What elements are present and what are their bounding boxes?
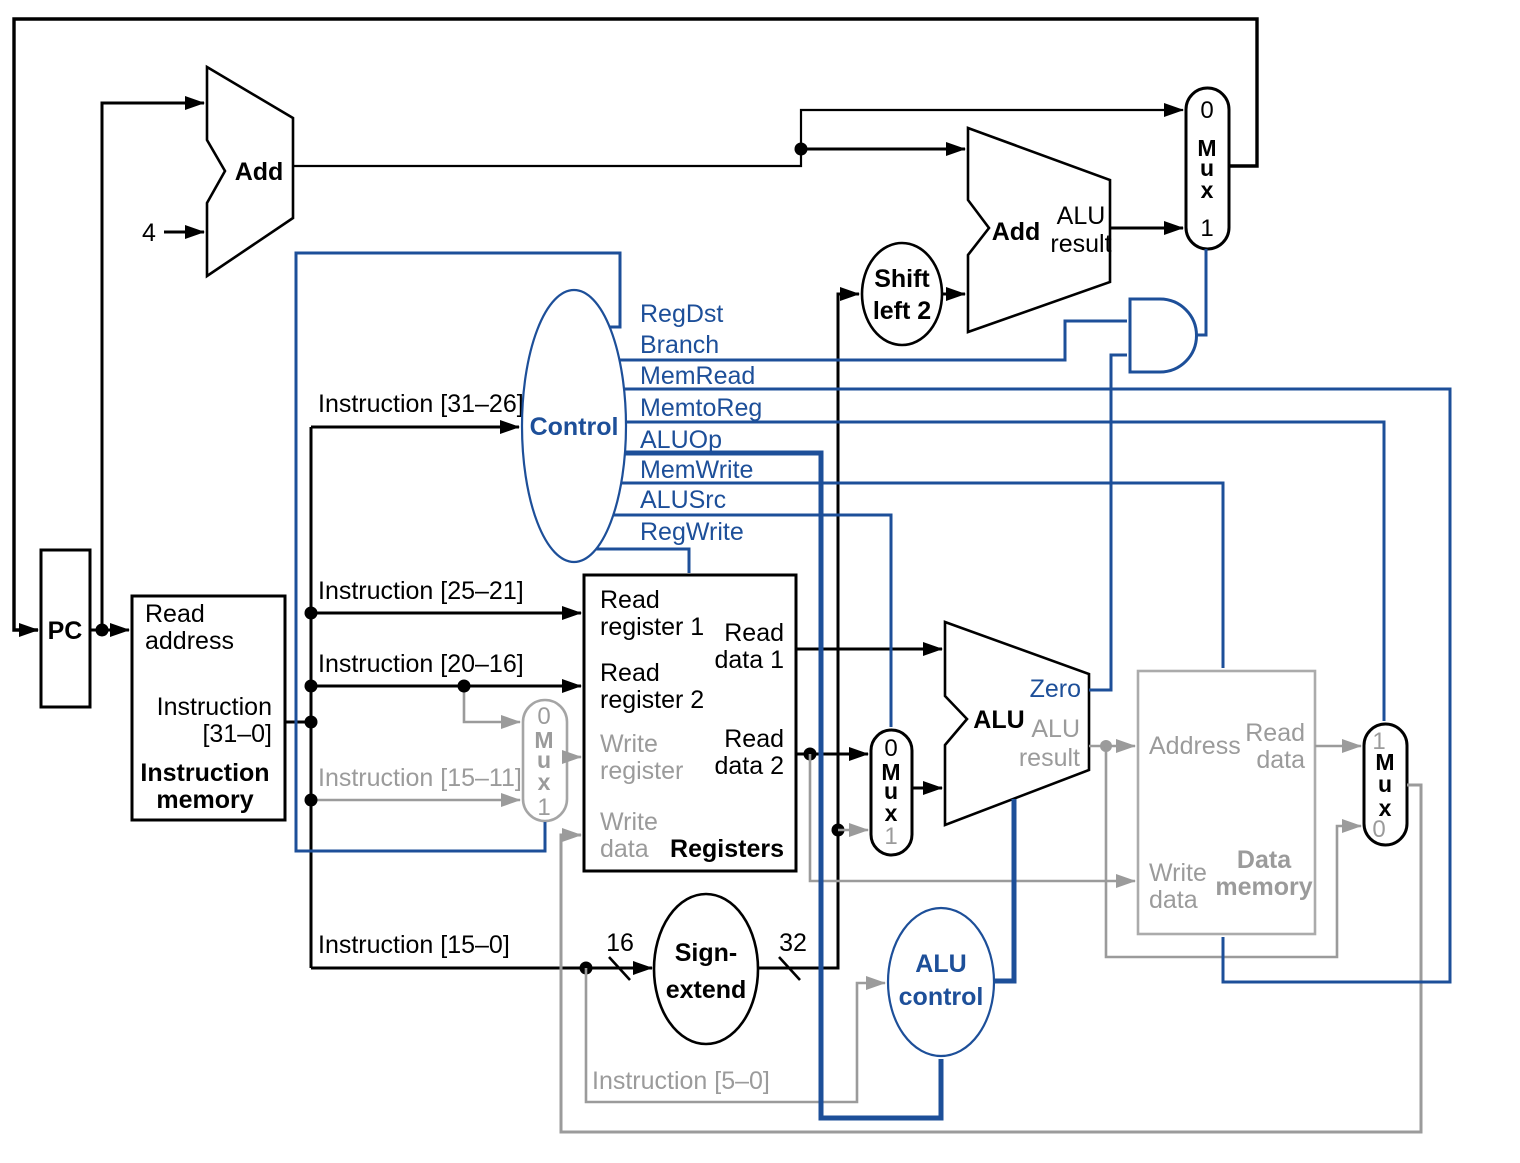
svg-text:address: address — [145, 627, 234, 655]
svg-text:ALUOp: ALUOp — [640, 426, 722, 454]
node junction Instruction [25-21] — [305, 607, 318, 620]
control unit — [522, 290, 626, 562]
svg-text:Data: Data — [1237, 846, 1292, 874]
node PC output junction — [96, 624, 109, 637]
label Branch — [640, 331, 719, 359]
wire Read data 2 to data memory Write data (inactive) — [810, 754, 1135, 881]
svg-text:control: control — [899, 983, 984, 1011]
svg-text:Sign-: Sign- — [675, 939, 738, 967]
wire Add output to branch circuitry — [293, 110, 1183, 166]
svg-text:Write: Write — [600, 730, 658, 758]
wire shift left 2 output to branch Add bottom input — [942, 293, 965, 296]
svg-text:result: result — [1050, 230, 1111, 258]
svg-text:1: 1 — [884, 823, 897, 850]
adder Add (PC+4) — [207, 67, 293, 276]
svg-text:0: 0 — [537, 703, 550, 730]
svg-text:Write: Write — [600, 808, 658, 836]
svg-text:Registers: Registers — [670, 835, 784, 863]
label MemWrite — [640, 456, 753, 484]
wire Instruction [20-16] to Read register 2 — [311, 685, 581, 688]
wire Read data 2 to ALUSrc mux input 0 — [796, 753, 868, 756]
wire ALUOp to ALU control (thick) — [625, 453, 941, 1118]
label Instruction [20-16] — [318, 650, 524, 678]
wire MemtoReg to MemtoReg mux select — [626, 422, 1384, 721]
label MemRead — [640, 362, 755, 390]
svg-text:ALU: ALU — [1031, 715, 1080, 743]
svg-text:[31–0]: [31–0] — [202, 720, 272, 748]
svg-text:register: register — [600, 757, 683, 785]
instruction memory — [132, 596, 285, 820]
svg-text:Zero: Zero — [1030, 675, 1081, 703]
wire Instruction [15-11] to write-register mux input 1 (inactive) — [311, 799, 520, 802]
wire Instruction [31-26] to Control — [311, 426, 519, 429]
wire Instruction [20-16] branch to write-register mux input 0 (inactive) — [464, 686, 520, 722]
svg-text:register 2: register 2 — [600, 686, 704, 714]
svg-text:Instruction [31–26]: Instruction [31–26] — [318, 390, 524, 418]
svg-text:MemWrite: MemWrite — [640, 456, 753, 484]
wire PC+4 to second Add top input — [801, 148, 965, 151]
svg-text:memory: memory — [156, 786, 253, 814]
wire instruction bus vertical — [310, 427, 313, 968]
ALU — [945, 622, 1089, 825]
svg-text:memory: memory — [1215, 873, 1312, 901]
wire ALUSrc to ALUSrc mux select — [613, 515, 891, 727]
wire write-back from MemtoReg mux output to Registers Write data (inactive) — [561, 785, 1421, 1132]
AND gate branch — [1130, 299, 1197, 372]
node PC+4 junction — [795, 143, 808, 156]
svg-text:register 1: register 1 — [600, 613, 704, 641]
label Instruction [5-0] (inactive) — [592, 1067, 770, 1095]
svg-text:Instruction [5–0]: Instruction [5–0] — [592, 1067, 770, 1095]
svg-text:Instruction [15–11]: Instruction [15–11] — [318, 764, 522, 792]
svg-text:Branch: Branch — [640, 331, 719, 359]
wire ALU result bypass to MemtoReg mux input 0 (inactive) — [1106, 746, 1361, 957]
svg-text:data: data — [1149, 886, 1198, 914]
svg-text:Add: Add — [992, 218, 1041, 246]
svg-text:PC: PC — [48, 617, 83, 645]
svg-text:Read: Read — [600, 586, 660, 614]
wire ALU result to data memory Address (inactive) — [1089, 745, 1135, 748]
wire 4 to Add bottom input — [164, 231, 204, 234]
wire PC-feedback from top-right mux output along top and left edges to PC input — [14, 19, 1257, 630]
shifter Shift left 2 — [862, 243, 942, 345]
wire instruction memory output to instruction bus — [285, 721, 311, 724]
svg-text:x: x — [1201, 177, 1214, 203]
svg-text:Read: Read — [600, 659, 660, 687]
wire MemWrite to data memory write port — [621, 483, 1223, 668]
label RegDst — [640, 300, 723, 328]
svg-text:Instruction [15–0]: Instruction [15–0] — [318, 931, 510, 959]
label 4 constant — [142, 219, 156, 247]
label 32 bit width — [779, 929, 807, 980]
label RegWrite — [640, 518, 744, 546]
svg-text:result: result — [1019, 744, 1080, 772]
svg-text:Read: Read — [145, 600, 205, 628]
sign-extend unit — [654, 894, 758, 1044]
label Instruction [31-26] — [318, 390, 524, 418]
svg-text:ALU: ALU — [1057, 202, 1106, 230]
svg-text:0: 0 — [1372, 816, 1385, 843]
svg-text:Instruction [25–21]: Instruction [25–21] — [318, 577, 524, 605]
svg-text:Address: Address — [1149, 732, 1241, 760]
label Instruction [25-21] — [318, 577, 524, 605]
wire RegDst from Control around to write-register mux select — [296, 253, 620, 851]
label Instruction [15-0] — [318, 931, 510, 959]
label Instruction [15-11] (inactive) — [318, 764, 522, 792]
svg-text:data 2: data 2 — [714, 752, 784, 780]
registers file — [584, 575, 796, 871]
node junction Instruction [15-11] on bus — [305, 794, 318, 807]
svg-text:MemRead: MemRead — [640, 362, 755, 390]
svg-text:Read: Read — [724, 619, 784, 647]
wire write-register mux output to Registers Write register (inactive) — [566, 756, 581, 759]
node junction Instruction [15-0] — [580, 962, 593, 975]
wire MemRead to data memory read port — [624, 389, 1450, 982]
PC register — [41, 550, 90, 707]
wire RegWrite to Registers write enable — [596, 549, 689, 573]
mux write-register select (RegDst mux, inactive) — [523, 700, 567, 821]
label 16 bit width — [606, 929, 634, 980]
svg-text:data: data — [1256, 746, 1305, 774]
svg-text:ALU: ALU — [915, 950, 966, 978]
wire sign-extend output up to shift left 2 — [758, 294, 859, 968]
label ALUSrc — [640, 486, 726, 514]
svg-text:4: 4 — [142, 219, 156, 247]
wire Instruction [5-0] to ALU control (inactive) — [586, 968, 885, 1102]
node junction Instruction [20-16] on bus — [305, 680, 318, 693]
svg-text:data: data — [600, 835, 649, 863]
wire Read data 1 to ALU input 1 — [796, 648, 942, 651]
wire AND gate output to PCSrc mux select — [1196, 249, 1206, 335]
svg-text:u: u — [1378, 771, 1392, 797]
node instruction bus junction at memory output — [305, 716, 318, 729]
svg-text:MemtoReg: MemtoReg — [640, 394, 762, 422]
wire PC output to instruction memory Read address — [90, 629, 129, 632]
svg-text:Read: Read — [724, 725, 784, 753]
svg-text:1: 1 — [537, 794, 550, 821]
svg-text:Shift: Shift — [874, 265, 930, 293]
svg-text:0: 0 — [1200, 97, 1213, 124]
wire Instruction [15-0] to sign-extend — [311, 967, 652, 970]
node junction sign-extend output to ALUSrc mux — [832, 824, 845, 837]
svg-text:Instruction: Instruction — [140, 759, 269, 787]
svg-text:Instruction [20–16]: Instruction [20–16] — [318, 650, 524, 678]
svg-text:Control: Control — [530, 413, 619, 441]
mux ALUSrc — [871, 730, 912, 855]
svg-text:Write: Write — [1149, 859, 1207, 887]
wire Instruction [25-21] to Read register 1 — [311, 612, 581, 615]
svg-text:1: 1 — [1200, 215, 1213, 242]
svg-text:32: 32 — [779, 929, 807, 957]
svg-text:0: 0 — [884, 735, 897, 762]
svg-text:16: 16 — [606, 929, 634, 957]
wire ALU Zero to AND gate — [1089, 355, 1127, 690]
svg-text:data 1: data 1 — [714, 646, 784, 674]
node junction Read data 2 — [804, 748, 817, 761]
wire ALU control output to ALU (ALU operation) — [993, 799, 1014, 981]
data memory (inactive) — [1138, 671, 1315, 934]
svg-text:Read: Read — [1245, 719, 1305, 747]
svg-text:extend: extend — [666, 976, 747, 1004]
label MemtoReg — [640, 394, 762, 422]
wire Branch to AND gate input 1 — [619, 321, 1127, 360]
ALU control unit — [888, 908, 994, 1056]
label ALUOp — [640, 426, 722, 454]
wire ALUSrc mux output to ALU input 2 — [912, 787, 942, 790]
wire PC output up to Add top input — [102, 103, 204, 630]
svg-text:left 2: left 2 — [873, 297, 931, 325]
svg-text:ALU: ALU — [973, 706, 1024, 734]
svg-text:RegWrite: RegWrite — [640, 518, 744, 546]
adder Add (branch target) — [968, 128, 1112, 332]
wire branch Add result to top mux input 1 — [1110, 227, 1183, 230]
node junction Instruction [20-16] branch — [458, 680, 471, 693]
mux PCSrc (top right) — [1186, 88, 1229, 249]
wire sign-extend output stub to ALUSrc mux input 1 (inactive) — [838, 829, 868, 832]
svg-text:Add: Add — [235, 158, 284, 186]
wire data memory Read data to MemtoReg mux input 1 (inactive) — [1315, 745, 1361, 748]
svg-text:Instruction: Instruction — [157, 693, 272, 721]
svg-text:RegDst: RegDst — [640, 300, 723, 328]
node junction ALU result — [1100, 740, 1112, 752]
svg-text:ALUSrc: ALUSrc — [640, 486, 726, 514]
mux MemtoReg — [1364, 724, 1407, 845]
svg-text:x: x — [538, 769, 551, 795]
